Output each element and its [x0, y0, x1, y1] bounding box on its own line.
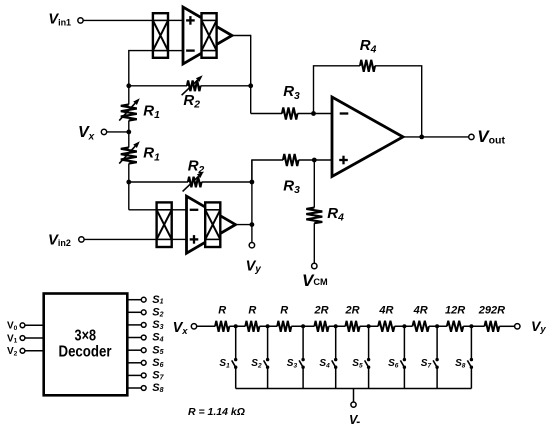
- resistor R4 bottom: [306, 208, 322, 224]
- input terminal V0: [20, 323, 25, 328]
- svg-text:4R: 4R: [378, 304, 393, 316]
- svg-text:S6: S6: [152, 357, 163, 369]
- wire ladder segment 6: [395, 325, 413, 327]
- svg-text:S5: S5: [152, 344, 163, 356]
- svg-text:Vy: Vy: [246, 259, 262, 275]
- switch S7: [435, 358, 438, 361]
- A3 plus sign: [339, 159, 348, 161]
- wire decoder output S7: [127, 374, 141, 376]
- feedback wire R4 top: [314, 66, 361, 114]
- switch S4: [334, 358, 337, 361]
- wire decoder output S5: [127, 349, 141, 351]
- node ladder junction 3: [301, 324, 305, 328]
- wire R3 bottom right: [299, 159, 333, 161]
- resistor R4 top: [360, 60, 375, 72]
- A1 minus sign: [186, 49, 195, 51]
- wire R2 bottom left: [129, 181, 188, 183]
- resistor R1 bottom: [121, 148, 137, 164]
- svg-text:Vout: Vout: [477, 127, 505, 147]
- wire Vx stub: [107, 131, 129, 133]
- svg-text:V0: V0: [7, 321, 18, 332]
- wire switch S5 to bus: [368, 367, 370, 388]
- svg-text:2R: 2R: [313, 304, 328, 316]
- node N5 junction: [312, 158, 317, 163]
- terminal S8: [141, 386, 146, 391]
- terminal Vx: [101, 129, 106, 134]
- wire ladder segment 7: [429, 325, 447, 327]
- wire ladder segment 4: [329, 325, 346, 327]
- op-amp A2: [187, 196, 236, 253]
- node ladder junction 8: [469, 324, 473, 328]
- svg-text:S1: S1: [219, 358, 230, 369]
- resistor R2 bottom: [188, 177, 202, 188]
- switch S8: [470, 358, 473, 361]
- wire to switch S7: [436, 326, 438, 359]
- wire ladder segment 1: [229, 325, 245, 327]
- wire V2 to decoder: [25, 350, 44, 352]
- A2 plus sign: [190, 238, 199, 240]
- wire A2 feedback bottom: [129, 209, 157, 211]
- switch S6: [403, 358, 406, 361]
- switch S3: [301, 358, 304, 361]
- input terminal Vin2: [79, 237, 84, 242]
- node N1 junction: [248, 83, 253, 88]
- resistor ladder 2R #5: [345, 321, 359, 332]
- A2 minus sign: [190, 209, 199, 211]
- svg-text:3×8: 3×8: [75, 327, 97, 344]
- wire A1 output: [232, 35, 251, 37]
- svg-text:12R: 12R: [445, 304, 465, 316]
- switch S1: [234, 358, 237, 361]
- svg-text:V2: V2: [7, 346, 18, 357]
- wire ladder segment 8: [463, 325, 484, 327]
- terminal VCM: [312, 263, 317, 268]
- wire decoder output S6: [127, 362, 141, 364]
- wire bottom bus: [236, 388, 472, 390]
- svg-text:S3: S3: [152, 319, 163, 331]
- A1 plus sign: [186, 19, 195, 21]
- svg-text:R: R: [280, 304, 288, 316]
- wire decoder output S3: [127, 324, 141, 326]
- svg-text:S8: S8: [152, 382, 163, 394]
- wire ladder segment 9: [499, 325, 514, 327]
- svg-text:Decoder: Decoder: [59, 344, 112, 361]
- decoder box: [44, 294, 128, 396]
- wire V0 to decoder: [25, 324, 44, 326]
- wire R2 top right: [201, 85, 251, 87]
- svg-text:S4: S4: [319, 358, 330, 369]
- node N6 junction: [250, 180, 255, 185]
- wire switch S3 to bus: [302, 367, 304, 388]
- wire switch S4 to bus: [335, 367, 337, 388]
- wire node N1 vertical: [250, 35, 252, 114]
- resistor ladder 4R #7: [413, 321, 429, 332]
- input terminal Vin1: [78, 18, 83, 23]
- wire to switch S5: [368, 326, 370, 359]
- resistor ladder 4R #6: [378, 321, 394, 332]
- wire R1 to Vx node: [128, 121, 130, 148]
- wire decoder output S8: [127, 387, 141, 389]
- svg-text:R2: R2: [183, 92, 200, 111]
- svg-text:S1: S1: [152, 294, 163, 306]
- wire switch S6 to bus: [403, 367, 405, 388]
- resistor R1 top: [121, 105, 137, 121]
- wire to switch S1: [235, 326, 237, 359]
- svg-text:292R: 292R: [478, 304, 505, 316]
- wire U2a to A2 (+): [172, 238, 187, 240]
- svg-text:R4: R4: [360, 37, 377, 56]
- wire switch S8 to bus: [470, 367, 472, 388]
- wire decoder output S2: [127, 311, 141, 313]
- svg-text:S7: S7: [421, 358, 432, 369]
- resistor R3 bottom: [283, 154, 299, 166]
- wire to switch S4: [335, 326, 337, 359]
- wire R3 bottom left: [252, 160, 283, 182]
- node ladder junction 5: [367, 324, 371, 328]
- wire to switch S6: [403, 326, 405, 359]
- node N2 junction: [126, 83, 131, 88]
- node ladder junction 4: [334, 324, 338, 328]
- wire V- stub: [353, 389, 355, 403]
- resistor ladder 292R #9: [485, 321, 500, 332]
- svg-text:R2: R2: [188, 158, 205, 177]
- wire A3 output: [403, 136, 469, 138]
- svg-text:R1: R1: [143, 102, 160, 121]
- node N7 junction: [250, 222, 255, 227]
- chopper U1a: [153, 13, 168, 58]
- svg-text:2R: 2R: [344, 304, 359, 316]
- svg-text:S6: S6: [388, 358, 399, 369]
- svg-text:S5: S5: [352, 358, 363, 369]
- wire decoder output S4: [127, 337, 141, 339]
- svg-text:S3: S3: [287, 358, 298, 369]
- svg-text:R = 1.14 kΩ: R = 1.14 kΩ: [188, 406, 245, 418]
- wire A2 output: [236, 224, 252, 226]
- switch S5: [367, 358, 370, 361]
- terminal S2: [141, 310, 146, 315]
- wire ladder segment 0: [197, 325, 215, 327]
- resistor ladder R #2: [245, 321, 259, 332]
- A3 minus sign: [340, 112, 349, 114]
- svg-text:R: R: [218, 304, 226, 316]
- node N3 junction: [126, 180, 131, 185]
- wire switch S1 to bus: [235, 367, 237, 388]
- svg-text:R3: R3: [283, 177, 300, 196]
- chopper U1b: [202, 13, 217, 58]
- wire U2a to A2 (-): [172, 209, 187, 211]
- chopper U2a: [157, 202, 172, 247]
- resistor R2 top: [187, 81, 201, 92]
- wire Vin2 to chopper U2a: [84, 238, 157, 240]
- wire U1a to A1 (+): [168, 19, 183, 21]
- input terminal V1: [20, 336, 25, 341]
- svg-text:R1: R1: [143, 145, 160, 164]
- svg-text:S4: S4: [152, 332, 163, 344]
- wire ladder segment 2: [259, 325, 277, 327]
- svg-text:VCM: VCM: [302, 271, 328, 290]
- svg-text:V1: V1: [7, 333, 18, 344]
- node ladder junction 6: [402, 324, 406, 328]
- chopper U2b: [205, 202, 220, 247]
- wire to switch S8: [470, 326, 472, 359]
- terminal S1: [141, 297, 146, 302]
- node ladder junction 7: [435, 324, 439, 328]
- resistor ladder 12R #8: [447, 321, 463, 332]
- svg-text:R3: R3: [283, 83, 300, 102]
- node ladder junction 1: [234, 324, 238, 328]
- resistor ladder R #3: [277, 321, 291, 332]
- wire Vin1 to chopper U1a: [83, 19, 153, 21]
- svg-text:Vy: Vy: [531, 318, 546, 335]
- wire decoder output S1: [127, 299, 141, 301]
- input terminal V2: [20, 348, 25, 353]
- switch S2: [266, 358, 269, 361]
- wire R4 to VCM: [313, 223, 315, 263]
- wire switch S2 to bus: [267, 367, 269, 388]
- svg-text:Vin1: Vin1: [48, 12, 71, 28]
- resistor ladder R #1: [215, 321, 229, 332]
- op-amp A1: [183, 7, 232, 64]
- terminal V-: [351, 402, 356, 407]
- svg-text:R: R: [248, 304, 256, 316]
- svg-text:S8: S8: [455, 358, 466, 369]
- svg-text:Vx: Vx: [173, 320, 189, 337]
- wire switch S7 to bus: [436, 367, 438, 388]
- wire to R4 bottom: [313, 160, 315, 208]
- svg-text:R4: R4: [327, 205, 344, 224]
- terminal Vx ladder: [191, 324, 196, 329]
- svg-text:4R: 4R: [413, 304, 428, 316]
- svg-text:Vx: Vx: [78, 124, 95, 143]
- wire node N6 vertical: [251, 160, 253, 243]
- resistor R3 top: [282, 108, 298, 120]
- svg-text:S2: S2: [251, 358, 262, 369]
- terminal S3: [141, 323, 146, 328]
- node ladder junction 2: [266, 324, 270, 328]
- wire A1 feedback top: [129, 51, 153, 105]
- wire R2 bottom right: [202, 181, 252, 183]
- wire ladder segment 3: [291, 325, 314, 327]
- wire R2 top left: [129, 85, 187, 87]
- wire to switch S2: [267, 326, 269, 359]
- wire R3 top right: [298, 113, 333, 115]
- terminal S6: [141, 360, 146, 365]
- svg-text:V: V: [349, 413, 359, 427]
- node Vx junction: [126, 130, 131, 135]
- terminal Vy top: [249, 243, 254, 248]
- node output junction: [419, 135, 424, 140]
- wire U1a to A1 (-): [168, 50, 183, 52]
- terminal S5: [141, 348, 146, 353]
- wire to switch S3: [302, 326, 304, 359]
- svg-text:S7: S7: [152, 370, 164, 382]
- node N4 junction: [311, 111, 316, 116]
- wire ladder segment 5: [360, 325, 379, 327]
- resistor ladder 2R #4: [314, 321, 328, 332]
- svg-text:Vin2: Vin2: [48, 232, 71, 248]
- svg-text:S2: S2: [152, 307, 163, 319]
- wire R3 top left: [251, 113, 282, 115]
- wire V1 to decoder: [25, 337, 44, 339]
- terminal S7: [141, 373, 146, 378]
- terminal S4: [141, 335, 146, 340]
- terminal Vout: [469, 134, 474, 139]
- terminal Vy ladder: [515, 324, 520, 329]
- op-amp A3: [332, 97, 403, 177]
- wire R1 to node N3: [128, 164, 130, 210]
